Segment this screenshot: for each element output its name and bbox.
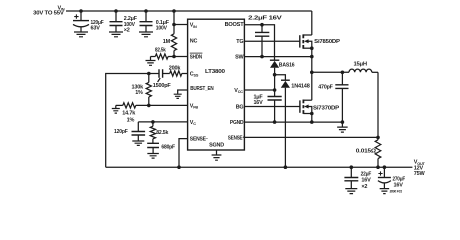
svg-text:270μF: 270μF bbox=[393, 177, 406, 183]
resistor R3 200k bbox=[163, 73, 170, 75]
junction rail at SENSE- bbox=[177, 165, 181, 169]
svg-text:1%: 1% bbox=[135, 90, 143, 96]
wire PGND line bbox=[244, 121, 342, 123]
ground SGND bbox=[216, 150, 218, 155]
wire BG to gate bbox=[244, 106, 299, 108]
wire TG to gate bbox=[244, 40, 299, 42]
junction rail at C10 bbox=[350, 165, 354, 169]
junction PGND at C8 bbox=[273, 120, 277, 124]
wire top input rail bbox=[66, 10, 312, 12]
ground PGND bbox=[341, 122, 343, 127]
junction inductor tap bbox=[310, 71, 314, 75]
wire inductor to sense resistor bbox=[377, 72, 379, 137]
svg-text:470pF: 470pF bbox=[318, 84, 333, 90]
capacitor C11 270uF 16V (polarized) bbox=[378, 171, 382, 175]
junction PGND at C9 bbox=[341, 120, 345, 124]
transistor Q1 Si7850DP bbox=[299, 35, 301, 47]
svg-text:BURST_EN: BURST_EN bbox=[190, 86, 214, 92]
capacitor C10 22uF 16V x2 bbox=[350, 167, 352, 177]
ground of C10 bbox=[345, 189, 357, 194]
resistor R5 14.7k 1% bbox=[116, 104, 123, 106]
wire SW to inductor bbox=[312, 71, 349, 73]
node VFB junction bbox=[147, 104, 151, 108]
ground of C11 bbox=[380, 189, 390, 194]
node VCC-diode junction bbox=[273, 73, 277, 77]
svg-text:1%: 1% bbox=[127, 117, 135, 123]
wire 1N4148 anode to output rail bbox=[284, 88, 286, 168]
svg-text:TG: TG bbox=[236, 39, 243, 45]
wire CSS left segment bbox=[149, 73, 159, 75]
wire feedback left net bbox=[106, 74, 149, 168]
svg-text:PGND: PGND bbox=[230, 120, 244, 126]
svg-text:1500pF: 1500pF bbox=[153, 83, 172, 89]
wire Q1 drain to rail bbox=[311, 11, 313, 35]
svg-text:100V: 100V bbox=[156, 26, 167, 32]
wire VFB line bbox=[136, 104, 188, 106]
ground of R5 bbox=[115, 105, 117, 108]
svg-text:22μF: 22μF bbox=[361, 172, 372, 178]
node SHDN junction bbox=[172, 55, 176, 59]
svg-text:SW: SW bbox=[235, 55, 244, 61]
svg-text:BG: BG bbox=[236, 105, 244, 111]
junction BOOST cap tap bbox=[260, 23, 264, 27]
ground of C6 bbox=[147, 154, 159, 159]
junction 470pF tap bbox=[341, 71, 345, 75]
wire VIN node drop bbox=[173, 11, 175, 25]
node CSS branch junction bbox=[147, 72, 151, 76]
ground of C2 bbox=[109, 32, 123, 37]
resistor R2 82.5k bbox=[151, 56, 156, 58]
capacitor C2 2.2uF 100V x2 bbox=[115, 11, 117, 22]
svg-text:3800 F01: 3800 F01 bbox=[390, 189, 403, 193]
svg-text:63V: 63V bbox=[91, 25, 101, 31]
resistor R7 0.015 ohm sense bbox=[377, 137, 379, 139]
ground of C1 bbox=[74, 32, 88, 37]
svg-text:14.7k: 14.7k bbox=[122, 111, 136, 117]
capacitor C6 680pF bbox=[147, 143, 159, 147]
wire switch node vertical bbox=[311, 48, 313, 100]
svg-text:×2: ×2 bbox=[361, 184, 367, 190]
op-amp U1 LT3800 body bbox=[188, 19, 245, 150]
junction Q1 source-body bbox=[310, 46, 314, 50]
wire diode node elbow bbox=[275, 75, 286, 81]
junction top rail at C3 bbox=[144, 9, 148, 13]
wire SENSE+ line bbox=[244, 136, 378, 138]
junction VCC node bbox=[273, 88, 277, 92]
resistor R6 82.5k bbox=[152, 122, 154, 126]
diode D1 BAS16 bbox=[270, 59, 279, 61]
svg-text:1M: 1M bbox=[163, 39, 171, 45]
svg-text:16V: 16V bbox=[361, 178, 371, 184]
svg-text:82.5k: 82.5k bbox=[156, 130, 169, 136]
ground of C5 bbox=[132, 141, 144, 145]
junction rail at 1N4148 bbox=[284, 165, 288, 169]
resistor R1 1M bbox=[173, 25, 175, 34]
junction top rail at VIN node bbox=[172, 9, 176, 13]
junction Q2 source-body bbox=[310, 112, 314, 116]
svg-text:LT3800: LT3800 bbox=[205, 69, 225, 75]
junction sense resistor top bbox=[376, 136, 380, 140]
wire VCC pin bbox=[244, 89, 274, 91]
svg-text:30V TO 55V: 30V TO 55V bbox=[33, 10, 64, 16]
capacitor C4 1500pF bbox=[159, 69, 163, 78]
svg-text:×2: ×2 bbox=[124, 27, 130, 33]
svg-text:SHDN: SHDN bbox=[190, 55, 202, 61]
ground of R2 bbox=[150, 57, 152, 61]
junction top rail at C2 bbox=[114, 9, 118, 13]
junction SW cap tap bbox=[260, 55, 264, 59]
wire to VIN pin bbox=[174, 24, 188, 26]
wire SW pin line bbox=[244, 56, 311, 58]
transistor Q2 Si7370DP bbox=[299, 100, 301, 112]
capacitor C5 120pF bbox=[137, 122, 139, 132]
capacitor C9 470pF bbox=[341, 72, 343, 85]
svg-text:200k: 200k bbox=[169, 66, 182, 72]
resistor R4 130k 1% bbox=[148, 74, 150, 83]
svg-text:1N4148: 1N4148 bbox=[291, 84, 309, 90]
svg-text:BOOST: BOOST bbox=[225, 22, 245, 28]
svg-text:16V: 16V bbox=[394, 183, 404, 189]
svg-text:0.015Ω: 0.015Ω bbox=[356, 149, 377, 155]
ground BURST_EN bbox=[178, 90, 188, 94]
svg-text:Si7850DP: Si7850DP bbox=[314, 39, 340, 45]
junction top rail at C1 bbox=[79, 9, 83, 13]
svg-text:Si7370DP: Si7370DP bbox=[313, 105, 340, 111]
svg-text:2.2μF 16V: 2.2μF 16V bbox=[248, 15, 282, 21]
capacitor C8 1uF 16V bbox=[274, 90, 276, 97]
node VC branch junction bbox=[151, 120, 155, 124]
svg-text:SGND: SGND bbox=[209, 143, 224, 149]
junction SW node bbox=[310, 55, 314, 59]
svg-text:BAS16: BAS16 bbox=[279, 62, 295, 68]
wire Q2 source to PGND line bbox=[311, 114, 313, 123]
wire VC line bbox=[138, 121, 187, 123]
wire to SHDN pin bbox=[174, 56, 188, 58]
junction PGND at Q2 bbox=[310, 120, 314, 124]
wire output bottom rail bbox=[106, 166, 413, 168]
wire BOOST to BAS16 bbox=[244, 25, 274, 61]
svg-text:680pF: 680pF bbox=[161, 145, 175, 151]
wire SENSE- pin to output rail bbox=[179, 139, 188, 168]
inductor L1 15uH bbox=[349, 69, 372, 72]
junction rail at C11 bbox=[383, 165, 387, 169]
svg-text:82.5k: 82.5k bbox=[155, 48, 167, 54]
diode D2 1N4148 bbox=[281, 79, 290, 81]
junction rail at sense resistor bbox=[376, 165, 380, 169]
capacitor C1 120uF 63V (polarized) bbox=[80, 11, 82, 21]
node VIN pin junction bbox=[172, 23, 176, 27]
svg-text:120pF: 120pF bbox=[114, 129, 128, 135]
svg-text:75W: 75W bbox=[414, 171, 426, 177]
svg-text:15μH: 15μH bbox=[354, 61, 368, 67]
capacitor C3 0.1uF 100V bbox=[145, 11, 147, 22]
svg-text:16V: 16V bbox=[254, 100, 264, 106]
svg-text:NC: NC bbox=[190, 39, 198, 45]
ground of C3 bbox=[139, 32, 153, 37]
